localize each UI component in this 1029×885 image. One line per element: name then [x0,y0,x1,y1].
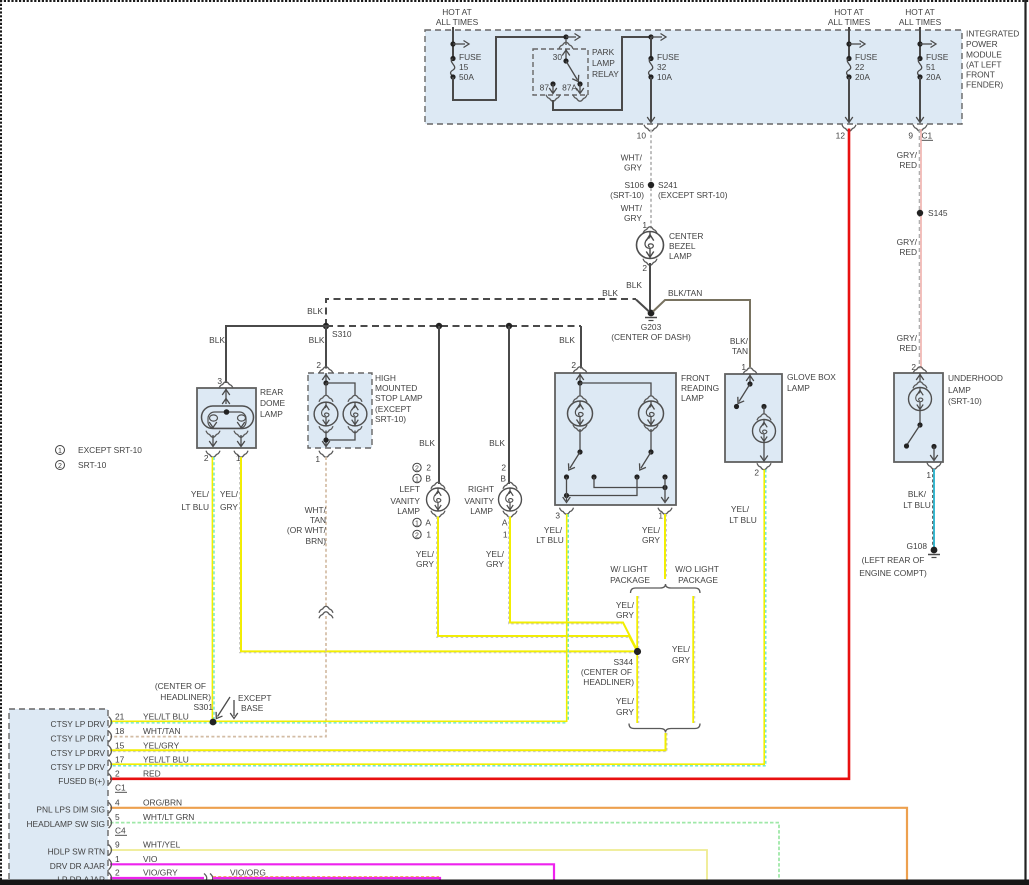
svg-text:2: 2 [501,463,506,473]
svg-text:S241: S241 [658,180,678,190]
bottom connector box (courtesy lamp switch connector) [9,709,108,885]
left vanity lamp label [390,484,420,516]
svg-text:GRY/: GRY/ [897,237,918,247]
svg-text:5: 5 [115,812,120,822]
svg-text:MODULE: MODULE [966,50,1002,60]
svg-text:YEL/LT BLU: YEL/LT BLU [143,712,189,722]
svg-text:CTSY LP DRV: CTSY LP DRV [51,762,106,772]
svg-text:INTEGRATED: INTEGRATED [966,29,1019,39]
glove box lamp label [787,372,836,393]
row DRV DR AJAR pin 1 [50,854,158,871]
svg-text:C4: C4 [115,826,126,836]
svg-text:A: A [425,518,431,528]
rear dome lamp pill body [202,406,254,429]
inline connector on WHT/TAN [319,606,333,618]
wire YEL/GRY front reading pin1 to brace [642,514,666,579]
svg-text:ALL TIMES: ALL TIMES [828,17,871,27]
svg-text:DRV DR AJAR: DRV DR AJAR [50,861,105,871]
park lamp relay label [592,47,619,79]
right vanity lamp lower pins label [502,518,508,540]
svg-text:30: 30 [553,52,563,62]
wire WHT/YEL row 9 [110,850,707,880]
svg-text:BRN): BRN) [306,536,327,546]
svg-text:2: 2 [415,465,419,472]
wire YEL/LT BLU dome pin2 to S301 [181,457,214,722]
svg-text:WHT/: WHT/ [621,203,643,213]
relay pin 30 connector [553,40,573,64]
wire fuse15 output to relay pin 30 [453,34,580,101]
row FUSED B(+) pin 2 [58,769,160,787]
fuse 22 feed wire [846,27,865,57]
svg-text:HIGH: HIGH [375,373,396,383]
relay pin 87 [540,81,560,101]
svg-text:G108: G108 [907,541,928,551]
glove box lamp bulb [753,407,776,462]
rear dome lamp filament left [209,415,217,428]
row CTSY LP DRV pin 18 [51,726,181,744]
svg-text:GRY: GRY [616,707,634,717]
front reading pin 3 [555,508,573,521]
front reading right bulb [639,396,664,431]
wire BLK S310 down to stop lamp [309,326,326,369]
svg-text:B: B [500,474,506,484]
svg-text:BLK: BLK [209,335,225,345]
ground G203 [611,310,691,342]
svg-text:W/O LIGHT: W/O LIGHT [675,564,719,574]
svg-text:GRY: GRY [486,559,504,569]
underhood lamp pin 2 [911,362,927,382]
svg-text:HOT AT: HOT AT [905,7,934,17]
svg-text:LAMP: LAMP [470,506,493,516]
svg-text:10A: 10A [657,72,672,82]
svg-text:LT BLU: LT BLU [536,535,564,545]
svg-text:GRY: GRY [416,559,434,569]
svg-text:87: 87 [540,83,550,93]
svg-text:PACKAGE: PACKAGE [610,575,650,585]
underhood lamp label [948,373,1003,406]
page top border [0,0,1029,2]
stop lamp pin 1 [315,451,333,464]
svg-text:PACKAGE: PACKAGE [678,575,718,585]
svg-text:EXCEPT SRT-10: EXCEPT SRT-10 [78,445,142,455]
front reading internal top wiring [580,383,651,396]
left vanity lamp bulb [427,482,450,517]
fuse 32 10A [648,37,679,82]
svg-text:RELAY: RELAY [592,69,619,79]
svg-text:GRY: GRY [624,163,642,173]
svg-text:GRY: GRY [624,213,642,223]
fuse 15 50A [450,52,481,82]
svg-text:BASE: BASE [241,703,264,713]
page left border [0,0,2,885]
svg-text:CTSY LP DRV: CTSY LP DRV [51,748,106,758]
svg-text:1: 1 [415,476,419,483]
svg-text:87A: 87A [562,83,577,93]
svg-text:GRY/: GRY/ [897,150,918,160]
wire VIO/GRY row 2 lower [110,877,204,879]
svg-text:WHT/: WHT/ [305,505,327,515]
high mounted stop lamp box [308,373,372,448]
stop lamp internal wiring bottom [322,431,355,447]
svg-text:READING: READING [681,383,719,393]
wire WHT/GRY splice to center bezel lamp [621,188,651,229]
front reading internal bottom wiring [563,477,669,503]
svg-text:G203: G203 [641,322,662,332]
svg-text:2: 2 [58,463,62,470]
stop lamp right bulb [343,395,367,432]
svg-text:YEL/: YEL/ [731,504,750,514]
right vanity lamp label [464,484,494,516]
svg-text:ORG/BRN: ORG/BRN [143,797,182,807]
front reading lamp box [555,373,676,505]
integrated power module label [966,29,1019,90]
svg-text:BLK/TAN: BLK/TAN [668,288,702,298]
svg-text:BEZEL: BEZEL [669,241,696,251]
ground G108 [859,541,940,578]
relay switch arm 30-87A [566,61,582,83]
left vanity lamp lower pins label [413,518,432,540]
svg-text:1: 1 [503,530,508,540]
wire BLK to right vanity lamp [489,326,509,484]
wire WHT/LT GRN row 5 [110,823,779,880]
splice S310 [323,323,352,339]
svg-text:WHT/YEL: WHT/YEL [143,840,181,850]
svg-text:4: 4 [115,797,120,807]
svg-text:FENDER): FENDER) [966,80,1003,90]
front reading lamp label [681,373,719,403]
svg-text:FUSED B(+): FUSED B(+) [58,776,105,786]
svg-text:YEL/LT BLU: YEL/LT BLU [143,755,189,765]
legend note 1 EXCEPT SRT-10 [56,445,143,455]
svg-text:LT BLU: LT BLU [903,500,931,510]
svg-text:1: 1 [58,448,62,455]
front reading lamp pin 2 [571,360,587,386]
splice S344 [581,648,641,687]
svg-text:B: B [425,474,431,484]
fuse 22 20A [846,52,877,82]
svg-text:20A: 20A [855,72,870,82]
svg-text:17: 17 [115,755,125,765]
svg-text:FUSE: FUSE [657,52,680,62]
row PNL LPS DIM SIG pin 4 [36,797,182,814]
wire YEL/GRY dome pin1 to S344 [220,457,634,653]
inline connector VIO/GRY to VIO/ORG [204,874,213,883]
svg-text:LT BLU: LT BLU [729,515,757,525]
svg-text:WHT/TAN: WHT/TAN [143,726,181,736]
connector label C4 [115,826,127,836]
left vanity lamp pins label [413,463,432,484]
svg-text:ALL TIMES: ALL TIMES [899,17,942,27]
wire BLK bezel to G203 [626,263,650,310]
glove box lamp pin 1 [741,362,757,387]
fuse 15 feed wire [450,27,469,57]
relay pin 87A [562,81,587,101]
svg-text:HEADLINER): HEADLINER) [160,692,211,702]
svg-text:BLK/: BLK/ [730,336,749,346]
wire BLK dashed S310 to vanity lamps and front reading lamp [326,323,581,369]
row HEADLAMP SW SIG pin 5 [27,812,195,829]
svg-text:HEADLINER): HEADLINER) [583,677,634,687]
svg-text:CENTER: CENTER [669,231,703,241]
front reading left bulb [568,396,593,431]
svg-text:FRONT: FRONT [681,373,710,383]
svg-text:(OR WHT/: (OR WHT/ [287,525,327,535]
park lamp relay box [533,49,588,95]
svg-text:ENGINE COMPT): ENGINE COMPT) [859,568,927,578]
svg-text:SRT-10): SRT-10) [375,414,406,424]
wire BLK dashed ground bus to G203 [307,288,649,326]
wire YEL/GRY w/o light package branch [672,596,695,723]
svg-text:YEL/GRY: YEL/GRY [143,741,180,751]
svg-text:BLK: BLK [419,438,435,448]
glove box lamp switch [734,384,767,409]
svg-text:1: 1 [926,470,931,480]
svg-text:18: 18 [115,726,125,736]
stop lamp internal wiring top [326,383,355,396]
svg-text:LAMP: LAMP [948,385,971,395]
svg-text:SRT-10: SRT-10 [78,460,107,470]
svg-text:15: 15 [459,62,469,72]
splice S145 [917,208,948,218]
svg-text:51: 51 [926,62,936,72]
integrated power module box [425,30,962,124]
svg-text:EXCEPT: EXCEPT [238,693,272,703]
label HOT AT ALL TIMES (fuse 22) [828,7,871,27]
svg-text:(CENTER OF: (CENTER OF [581,667,632,677]
wire VIO/ORG [213,877,440,881]
wire YEL/GRY left vanity to S344 [416,517,637,651]
rear dome lamp pin 3 [217,376,233,404]
svg-text:(CENTER OF DASH): (CENTER OF DASH) [611,332,691,342]
wire WHT/TAN stop lamp to connector row 18 [110,457,327,737]
svg-text:ALL TIMES: ALL TIMES [436,17,479,27]
svg-text:BLK: BLK [559,335,575,345]
svg-text:1: 1 [658,511,663,521]
svg-text:TAN: TAN [732,346,748,356]
wire YEL/LT BLU glove box to row 17 [110,470,766,766]
svg-text:2: 2 [204,453,209,463]
svg-text:FRONT: FRONT [966,70,995,80]
svg-text:YEL/: YEL/ [486,549,505,559]
svg-text:HOT AT: HOT AT [834,7,863,17]
svg-text:WHT/LT GRN: WHT/LT GRN [143,812,194,822]
svg-text:BLK: BLK [602,288,618,298]
fuse 51 20A [917,52,948,82]
svg-text:FUSE: FUSE [459,52,482,62]
wire BLK/TAN G203 to glove box lamp [653,288,750,367]
svg-text:BLK/: BLK/ [908,489,927,499]
module pin 12 [836,77,856,141]
wire RED module pin12 to row 2 [110,129,849,779]
svg-text:GRY: GRY [642,535,660,545]
svg-text:LAMP: LAMP [787,383,810,393]
svg-text:VIO: VIO [143,854,158,864]
svg-text:S310: S310 [332,329,352,339]
svg-text:YEL/: YEL/ [672,644,691,654]
glove box lamp box [725,374,782,462]
svg-text:YEL/: YEL/ [616,600,635,610]
svg-text:2: 2 [115,769,120,779]
svg-text:RED: RED [899,343,917,353]
page right border [1024,0,1026,885]
svg-text:32: 32 [657,62,667,72]
svg-text:(SRT-10): (SRT-10) [610,190,644,200]
svg-text:VIO/GRY: VIO/GRY [143,868,178,878]
svg-text:RED: RED [143,769,161,779]
svg-text:VANITY: VANITY [464,496,494,506]
svg-text:C1: C1 [115,783,126,793]
svg-text:LAMP: LAMP [260,409,283,419]
fuse 51 feed wire [917,27,936,57]
label EXCEPT BASE with arrows [213,693,271,721]
splice S301 [155,681,217,725]
svg-text:1: 1 [415,520,419,527]
label W/ LIGHT PACKAGE [610,564,650,585]
svg-text:BLK: BLK [307,306,323,316]
svg-text:TAN: TAN [310,515,326,525]
svg-text:LAMP: LAMP [397,506,420,516]
svg-text:S145: S145 [928,208,948,218]
rear dome lamp filament right [237,415,245,428]
stop lamp pin 2 [316,360,333,386]
svg-text:2: 2 [415,532,419,539]
wire YEL/GRY right vanity to S344 [486,517,637,650]
svg-text:1: 1 [115,854,120,864]
wire YEL/GRY w/ light package branch [616,596,639,723]
svg-text:GRY: GRY [672,655,690,665]
connector label C1 [115,783,127,793]
svg-text:20A: 20A [926,72,941,82]
underhood lamp bulb [909,382,932,425]
svg-text:1: 1 [315,454,320,464]
wire BLK/LT BLU underhood to G108 [903,469,934,547]
svg-text:A: A [502,518,508,528]
svg-text:BLK: BLK [309,335,325,345]
svg-text:BLK: BLK [626,280,642,290]
center bezel lamp pin 1 [642,220,657,233]
right vanity lamp pins label [500,463,506,484]
high mounted stop lamp label [375,373,423,424]
rear dome lamp pin 2 internal [204,431,220,463]
module pin 9 connector C1 [908,77,933,141]
svg-text:RED: RED [899,247,917,257]
row CTSY LP DRV pin 21 [51,712,189,730]
svg-text:2: 2 [426,463,431,473]
module pin 10 [637,77,658,141]
underhood lamp pin 1 [926,463,941,480]
svg-text:1: 1 [426,530,431,540]
label W/O LIGHT PACKAGE [675,564,719,585]
svg-text:3: 3 [555,511,560,521]
svg-text:REAR: REAR [260,387,283,397]
legend note 2 SRT-10 [56,460,107,470]
svg-text:RIGHT: RIGHT [468,484,494,494]
page bottom border bar [0,880,1029,885]
svg-text:CTSY LP DRV: CTSY LP DRV [51,719,106,729]
wire ORG/BRN row 4 [110,808,907,880]
wire BLK to left vanity lamp [419,326,439,484]
svg-text:YEL/: YEL/ [616,696,635,706]
svg-text:(CENTER OF: (CENTER OF [155,681,206,691]
svg-text:GRY/: GRY/ [897,333,918,343]
svg-text:YEL/: YEL/ [642,525,661,535]
front reading right switch [634,429,667,480]
svg-text:GRY: GRY [616,610,634,620]
svg-text:2: 2 [754,468,759,478]
svg-text:GRY: GRY [220,502,238,512]
svg-text:UNDERHOOD: UNDERHOOD [948,373,1003,383]
wire YEL/LT BLU row 21 connector to front reading pin3 [110,721,567,723]
row HDLP SW RTN pin 9 [48,840,181,857]
svg-text:LT BLU: LT BLU [181,502,209,512]
svg-text:HOT AT: HOT AT [442,7,471,17]
svg-text:LAMP: LAMP [669,251,692,261]
rear dome lamp box [197,388,256,448]
svg-text:21: 21 [115,712,125,722]
svg-text:9: 9 [115,840,120,850]
svg-text:YEL/: YEL/ [416,549,435,559]
svg-text:MOUNTED: MOUNTED [375,383,417,393]
wire GRY/RED module pin9 to underhood lamp [897,129,921,369]
svg-text:(AT LEFT: (AT LEFT [966,60,1002,70]
svg-text:YEL/: YEL/ [544,525,563,535]
splice S106 / S241 [610,180,728,200]
svg-text:FUSE: FUSE [855,52,878,62]
svg-text:PARK: PARK [592,47,615,57]
svg-text:GLOVE BOX: GLOVE BOX [787,372,836,382]
row CTSY LP DRV pin 17 [51,755,189,773]
stop lamp left bulb [314,395,338,432]
wire relay 87 to fuse 32 [553,34,666,111]
svg-text:HDLP SW RTN: HDLP SW RTN [48,847,105,857]
svg-text:2: 2 [571,360,576,370]
underhood lamp box [894,373,943,462]
svg-text:(LEFT REAR OF: (LEFT REAR OF [862,555,925,565]
bottom brace [629,724,700,733]
rear dome lamp pin 1 internal [234,431,248,463]
svg-text:22: 22 [855,62,865,72]
svg-text:(EXCEPT SRT-10): (EXCEPT SRT-10) [658,190,728,200]
svg-text:C1: C1 [922,131,933,141]
svg-text:S301: S301 [193,702,213,712]
svg-text:S106: S106 [624,180,644,190]
label HOT AT ALL TIMES (fuse 51) [899,7,942,27]
wire YEL/GRY S344 to row 15 [110,733,667,752]
svg-text:VIO/ORG: VIO/ORG [230,868,266,878]
svg-text:CTSY LP DRV: CTSY LP DRV [51,734,106,744]
svg-text:BLK: BLK [489,438,505,448]
svg-text:POWER: POWER [966,39,998,49]
svg-text:2: 2 [115,868,120,878]
svg-text:LAMP: LAMP [681,393,704,403]
front reading left switch [564,429,597,480]
top brace [631,584,701,593]
right vanity lamp bulb [499,482,522,517]
label HOT AT ALL TIMES (fuse 15) [436,7,479,27]
svg-text:12: 12 [836,131,846,141]
svg-text:(SRT-10): (SRT-10) [948,396,982,406]
svg-text:W/ LIGHT: W/ LIGHT [610,564,647,574]
row CTSY LP DRV pin 15 [51,741,180,759]
svg-text:RED: RED [899,160,917,170]
svg-text:S344: S344 [613,657,633,667]
svg-text:HEADLAMP SW SIG: HEADLAMP SW SIG [27,819,106,829]
svg-text:VANITY: VANITY [390,496,420,506]
wire WHT/GRY module pin10 to splice [621,130,651,183]
glove box lamp pin 2 [754,463,771,477]
wire BLK S310 to rear dome lamp [209,326,326,383]
underhood lamp mercury switch [904,422,938,460]
